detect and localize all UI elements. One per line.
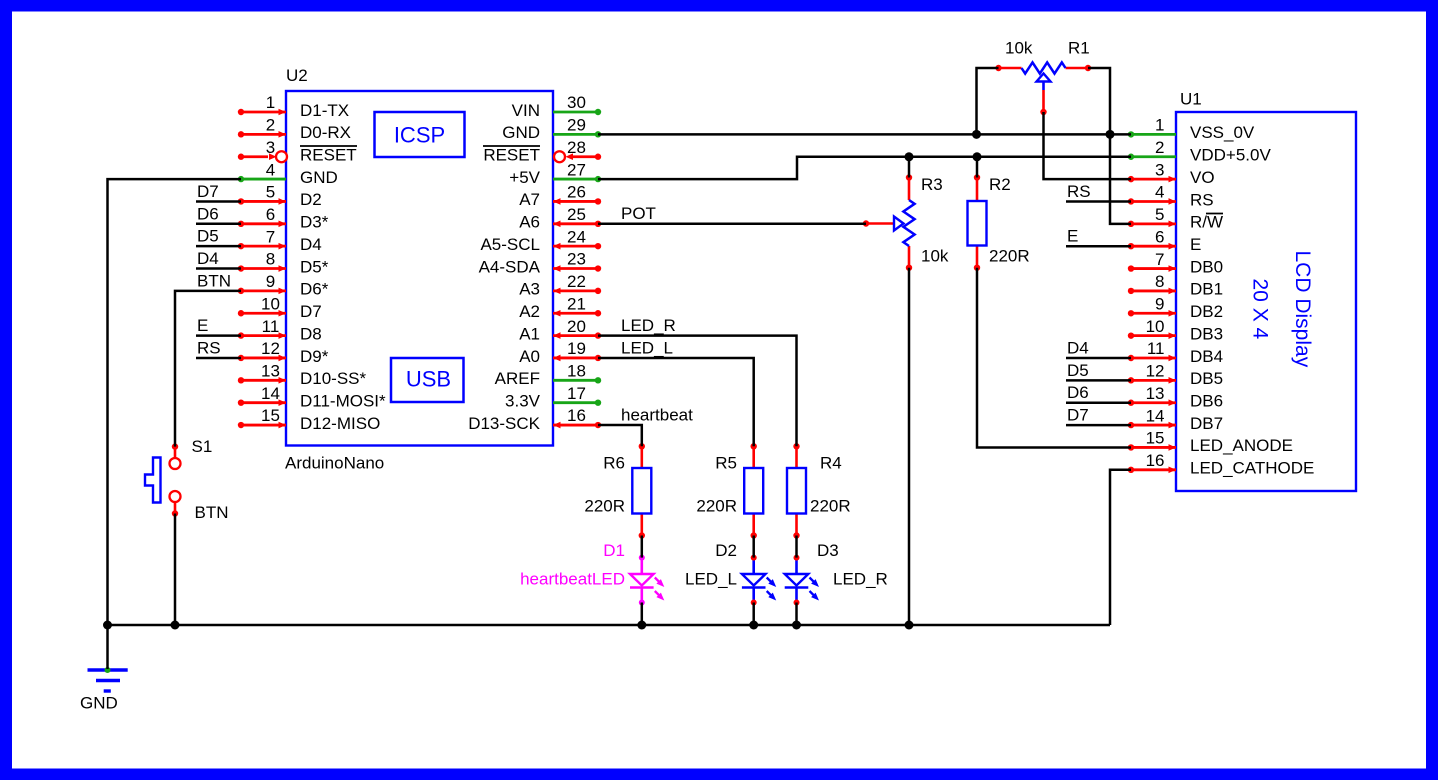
svg-text:DB3: DB3 bbox=[1190, 324, 1223, 343]
node D7 at U2 pin 5 bbox=[196, 200, 241, 203]
svg-text:A5-SCL: A5-SCL bbox=[480, 235, 540, 254]
svg-text:3: 3 bbox=[266, 138, 275, 157]
wire GND bus U2 pin29 to U1 pin1 bbox=[598, 133, 1131, 136]
svg-text:D5: D5 bbox=[1067, 361, 1089, 380]
svg-text:R5: R5 bbox=[715, 454, 737, 473]
wire +5V to R3 top bbox=[908, 157, 911, 178]
wire R3 bottom to rail bbox=[908, 268, 911, 625]
svg-text:15: 15 bbox=[1146, 429, 1165, 448]
wire R2 bottom to U1 pin15 LED_ANODE bbox=[977, 268, 1131, 448]
U2 pin 23 A4-SDA bbox=[553, 267, 598, 270]
svg-text:heartbeat: heartbeat bbox=[621, 406, 693, 425]
svg-text:D3: D3 bbox=[817, 541, 839, 560]
svg-text:LED_L: LED_L bbox=[621, 338, 673, 357]
svg-text:S1: S1 bbox=[192, 437, 213, 456]
svg-text:22: 22 bbox=[567, 272, 586, 291]
resistor R6 220R bbox=[640, 446, 643, 468]
svg-text:VDD+5.0V: VDD+5.0V bbox=[1190, 146, 1271, 165]
U2 pin 3 RESET bbox=[241, 155, 268, 158]
U2 pin 7 D4 bbox=[241, 245, 286, 248]
svg-text:BTN: BTN bbox=[197, 271, 231, 290]
node D4 at U2 pin 8 bbox=[196, 267, 241, 270]
svg-text:10: 10 bbox=[1146, 317, 1165, 336]
junction R3 / +5V bus bbox=[905, 152, 914, 161]
svg-text:28: 28 bbox=[567, 138, 586, 157]
svg-text:D4: D4 bbox=[197, 249, 219, 268]
svg-text:DB7: DB7 bbox=[1190, 414, 1223, 433]
U2 pin 19 A0 bbox=[553, 357, 598, 360]
U2 pin 20 A1 bbox=[553, 334, 598, 337]
wire +5V U2 pin27 to U1 pin2 bbox=[598, 157, 1131, 179]
svg-text:GND: GND bbox=[80, 694, 118, 713]
svg-text:7: 7 bbox=[1155, 250, 1164, 269]
U2 pin 28 RESET bbox=[554, 151, 565, 162]
U2 pin 18 AREF bbox=[553, 379, 598, 382]
svg-text:heartbeatLED: heartbeatLED bbox=[520, 570, 625, 589]
svg-text:D5*: D5* bbox=[300, 257, 329, 276]
svg-text:D5: D5 bbox=[197, 227, 219, 246]
svg-text:D13-SCK: D13-SCK bbox=[468, 414, 540, 433]
svg-text:16: 16 bbox=[567, 406, 586, 425]
node D6 at U1 pin 13 bbox=[1066, 401, 1131, 404]
U1 pin 3 VO bbox=[1131, 178, 1176, 181]
svg-text:10k: 10k bbox=[921, 247, 949, 266]
svg-text:VO: VO bbox=[1190, 168, 1215, 187]
ground symbol GND bbox=[88, 668, 128, 671]
svg-text:21: 21 bbox=[567, 294, 586, 313]
svg-text:18: 18 bbox=[567, 362, 586, 381]
wire GND bus to U1 pin5 R/W bbox=[1110, 134, 1131, 223]
svg-text:USB: USB bbox=[406, 366, 451, 391]
U1 pin 14 DB7 bbox=[1131, 424, 1176, 427]
wire LED_R U2 pin20 to R4 bbox=[598, 336, 797, 447]
svg-text:ICSP: ICSP bbox=[394, 122, 445, 147]
svg-text:10: 10 bbox=[261, 294, 280, 313]
svg-text:U2: U2 bbox=[286, 66, 308, 85]
U2 pin 10 D7 bbox=[241, 312, 286, 315]
svg-text:D12-MISO: D12-MISO bbox=[300, 414, 380, 433]
U1 pin 10 DB3 bbox=[1131, 334, 1176, 337]
svg-text:5: 5 bbox=[266, 183, 275, 202]
potentiometer R3 10k bbox=[908, 178, 911, 201]
svg-text:4: 4 bbox=[266, 160, 275, 179]
junction rail D3 bbox=[792, 621, 801, 630]
U2 pin 2 D0-RX bbox=[241, 133, 286, 136]
junction rail S1 bbox=[171, 621, 180, 630]
U2 pin 21 A2 bbox=[553, 312, 598, 315]
svg-text:RS: RS bbox=[1190, 190, 1214, 209]
svg-text:D7: D7 bbox=[300, 302, 322, 321]
IC U2 ArduinoNano body bbox=[286, 91, 553, 446]
svg-text:9: 9 bbox=[1155, 294, 1164, 313]
svg-text:20 X 4: 20 X 4 bbox=[1249, 279, 1272, 340]
LED D2 LED_L bbox=[752, 558, 755, 574]
svg-text:DB6: DB6 bbox=[1190, 392, 1223, 411]
svg-text:19: 19 bbox=[567, 339, 586, 358]
wire R1 wiper to U1 pin3 VO bbox=[1044, 112, 1132, 179]
svg-text:U1: U1 bbox=[1180, 90, 1202, 109]
push button S1 BTN bbox=[172, 443, 178, 449]
node D4 at U1 pin 11 bbox=[1066, 357, 1131, 360]
junction R2 / +5V bus bbox=[973, 152, 982, 161]
svg-text:LED_ANODE: LED_ANODE bbox=[1190, 436, 1293, 455]
svg-text:LED_R: LED_R bbox=[621, 316, 676, 335]
resistor R2 220R bbox=[976, 178, 979, 202]
svg-text:D6: D6 bbox=[197, 204, 219, 223]
U2 pin 24 A5-SCL bbox=[553, 245, 598, 248]
svg-text:E: E bbox=[1067, 227, 1078, 246]
wire LED_CATHODE to rail bbox=[1110, 470, 1131, 625]
wire +5V to R2 top bbox=[976, 157, 979, 178]
U1 pin 16 LED_CATHODE bbox=[1131, 468, 1176, 471]
svg-text:D2: D2 bbox=[300, 190, 322, 209]
junction rail R3 bbox=[905, 621, 914, 630]
svg-text:R2: R2 bbox=[989, 175, 1011, 194]
U2 pin 12 D9* bbox=[241, 357, 286, 360]
svg-text:R6: R6 bbox=[603, 454, 625, 473]
svg-text:LED_L: LED_L bbox=[685, 570, 737, 589]
svg-text:RESET: RESET bbox=[483, 146, 540, 165]
U2 pin 9 D6* bbox=[241, 289, 286, 292]
U2 pin 4 GND bbox=[241, 178, 286, 181]
svg-text:E: E bbox=[197, 316, 208, 335]
svg-text:DB5: DB5 bbox=[1190, 369, 1223, 388]
node RS at U1 pin 4 bbox=[1066, 200, 1131, 203]
svg-text:4: 4 bbox=[1155, 183, 1164, 202]
node D7 at U1 pin 14 bbox=[1066, 424, 1131, 427]
svg-text:D8: D8 bbox=[300, 324, 322, 343]
svg-text:220R: 220R bbox=[696, 497, 737, 516]
svg-text:DB4: DB4 bbox=[1190, 347, 1223, 366]
svg-text:1: 1 bbox=[266, 93, 275, 112]
svg-text:RS: RS bbox=[197, 338, 221, 357]
node E at U1 pin 6 bbox=[1066, 245, 1131, 248]
svg-text:14: 14 bbox=[1146, 406, 1165, 425]
node D6 at U2 pin 6 bbox=[196, 223, 241, 226]
svg-text:2: 2 bbox=[1155, 138, 1164, 157]
resistor R5 220R bbox=[752, 446, 755, 468]
svg-text:D0-RX: D0-RX bbox=[300, 123, 351, 142]
svg-text:29: 29 bbox=[567, 116, 586, 135]
svg-text:7: 7 bbox=[266, 227, 275, 246]
wire S1 to rail bbox=[174, 514, 177, 626]
svg-text:23: 23 bbox=[567, 250, 586, 269]
U1 pin 2 VDD+5.0V bbox=[1131, 155, 1176, 158]
U2 pin 27 +5V bbox=[553, 178, 598, 181]
U1 pin 5 R/W bbox=[1131, 222, 1176, 225]
svg-text:220R: 220R bbox=[810, 497, 851, 516]
svg-text:A2: A2 bbox=[519, 302, 540, 321]
svg-text:D2: D2 bbox=[715, 541, 737, 560]
svg-text:GND: GND bbox=[502, 123, 540, 142]
svg-text:D11-MOSI*: D11-MOSI* bbox=[300, 391, 386, 410]
wire R5 to D2 bbox=[752, 536, 755, 558]
svg-text:8: 8 bbox=[266, 250, 275, 269]
svg-text:A1: A1 bbox=[519, 324, 540, 343]
USB box bbox=[391, 358, 464, 402]
svg-text:R4: R4 bbox=[820, 454, 842, 473]
svg-text:D9*: D9* bbox=[300, 347, 329, 366]
junction R1 right / GND bus bbox=[1106, 130, 1115, 139]
ICSP box bbox=[375, 112, 465, 157]
svg-text:A3: A3 bbox=[519, 280, 540, 299]
svg-text:BTN: BTN bbox=[195, 503, 229, 522]
wire D1 to rail bbox=[641, 603, 644, 626]
svg-text:13: 13 bbox=[261, 362, 280, 381]
U1 pin 8 DB1 bbox=[1131, 290, 1176, 293]
wire R1 right down bbox=[1088, 68, 1110, 134]
svg-text:R/W: R/W bbox=[1190, 213, 1223, 232]
U2 pin 26 A7 bbox=[553, 200, 598, 203]
svg-text:26: 26 bbox=[567, 183, 586, 202]
svg-text:LED_R: LED_R bbox=[833, 570, 888, 589]
svg-text:25: 25 bbox=[567, 205, 586, 224]
svg-text:D1-TX: D1-TX bbox=[300, 101, 349, 120]
svg-text:D7: D7 bbox=[197, 182, 219, 201]
svg-text:DB1: DB1 bbox=[1190, 280, 1223, 299]
wire POT U2 pin25 to R3 wiper bbox=[598, 223, 866, 226]
LED D1 heartbeatLED bbox=[640, 558, 643, 574]
junction R1 left / GND bus bbox=[972, 130, 981, 139]
IC U1 LCD Display body bbox=[1176, 112, 1356, 491]
svg-text:DB2: DB2 bbox=[1190, 302, 1223, 321]
U1 pin 7 DB0 bbox=[1131, 267, 1176, 270]
svg-text:R1: R1 bbox=[1068, 39, 1090, 58]
node RS at U2 pin 12 bbox=[196, 357, 241, 360]
node E at U2 pin 11 bbox=[196, 334, 241, 337]
svg-text:17: 17 bbox=[567, 384, 586, 403]
svg-text:D3*: D3* bbox=[300, 213, 329, 232]
U1 pin 4 RS bbox=[1131, 200, 1176, 203]
svg-text:1: 1 bbox=[1155, 116, 1164, 135]
svg-text:A4-SDA: A4-SDA bbox=[479, 257, 541, 276]
svg-text:D4: D4 bbox=[1067, 339, 1089, 358]
svg-text:E: E bbox=[1190, 235, 1201, 254]
svg-text:5: 5 bbox=[1155, 205, 1164, 224]
svg-text:+5V: +5V bbox=[509, 168, 540, 187]
U1 pin 13 DB6 bbox=[1131, 401, 1176, 404]
wire GND from U2 pin4 to ground symbol bbox=[108, 179, 242, 669]
svg-text:D6: D6 bbox=[1067, 383, 1089, 402]
U1 pin 9 DB2 bbox=[1131, 312, 1176, 315]
U2 pin 8 D5* bbox=[241, 267, 286, 270]
svg-text:15: 15 bbox=[261, 406, 280, 425]
svg-text:A7: A7 bbox=[519, 190, 540, 209]
U2 pin 13 D10-SS* bbox=[241, 379, 286, 382]
svg-text:6: 6 bbox=[1155, 227, 1164, 246]
wire BTN from U2 pin9 to S1 bbox=[175, 291, 241, 447]
svg-text:24: 24 bbox=[567, 227, 586, 246]
U2 pin 16 D13-SCK bbox=[553, 424, 598, 427]
wire R6 to D1 bbox=[641, 536, 644, 558]
U2 pin 14 D11-MOSI* bbox=[241, 401, 286, 404]
U2 pin 6 D3* bbox=[241, 222, 286, 225]
U1 pin 11 DB4 bbox=[1131, 357, 1176, 360]
svg-text:30: 30 bbox=[567, 93, 586, 112]
wire bottom ground rail bbox=[108, 624, 1111, 627]
wire heartbeat U2 pin16 to R6 bbox=[598, 425, 642, 446]
wire D3 to rail bbox=[795, 603, 798, 626]
svg-text:14: 14 bbox=[261, 384, 280, 403]
svg-text:11: 11 bbox=[1147, 339, 1165, 358]
wire LED_L U2 pin19 to R5 bbox=[598, 358, 754, 446]
svg-text:LED_CATHODE: LED_CATHODE bbox=[1190, 459, 1314, 478]
svg-text:3: 3 bbox=[1155, 160, 1164, 179]
node D5 at U1 pin 12 bbox=[1066, 379, 1131, 382]
svg-text:RESET: RESET bbox=[300, 146, 357, 165]
svg-text:13: 13 bbox=[1146, 384, 1165, 403]
svg-text:11: 11 bbox=[262, 317, 280, 336]
svg-text:20: 20 bbox=[567, 317, 586, 336]
U2 pin 25 A6 bbox=[553, 222, 598, 225]
junction rail D2 bbox=[749, 621, 758, 630]
U2 pin 22 A3 bbox=[553, 289, 598, 292]
svg-text:D1: D1 bbox=[603, 541, 625, 560]
svg-text:D7: D7 bbox=[1067, 406, 1089, 425]
U1 pin 12 DB5 bbox=[1131, 379, 1176, 382]
svg-text:D6*: D6* bbox=[300, 280, 329, 299]
svg-text:12: 12 bbox=[261, 339, 280, 358]
U2 pin 11 D8 bbox=[241, 334, 286, 337]
svg-text:GND: GND bbox=[300, 168, 338, 187]
svg-text:D10-SS*: D10-SS* bbox=[300, 369, 367, 388]
potentiometer R1 10k bbox=[999, 67, 1022, 70]
svg-text:2: 2 bbox=[266, 116, 275, 135]
svg-text:DB0: DB0 bbox=[1190, 257, 1223, 276]
svg-text:10k: 10k bbox=[1005, 39, 1033, 58]
U1 pin 15 LED_ANODE bbox=[1131, 446, 1176, 449]
svg-text:220R: 220R bbox=[584, 497, 625, 516]
U2 pin 15 D12-MISO bbox=[241, 424, 286, 427]
svg-text:VIN: VIN bbox=[512, 101, 540, 120]
U1 pin 6 E bbox=[1131, 245, 1176, 248]
U2 pin 30 VIN bbox=[553, 111, 598, 114]
svg-text:VSS_0V: VSS_0V bbox=[1190, 123, 1255, 142]
U2 pin 1 D1-TX bbox=[241, 111, 286, 114]
resistor R4 220R bbox=[795, 446, 798, 468]
svg-text:3.3V: 3.3V bbox=[505, 391, 541, 410]
svg-text:LCD Display: LCD Display bbox=[1291, 251, 1314, 368]
wire D2 to rail bbox=[752, 603, 755, 626]
U2 pin 17 3.3V bbox=[553, 401, 598, 404]
svg-text:AREF: AREF bbox=[495, 369, 540, 388]
svg-text:6: 6 bbox=[266, 205, 275, 224]
svg-text:A6: A6 bbox=[519, 213, 540, 232]
svg-text:R3: R3 bbox=[921, 175, 943, 194]
svg-text:9: 9 bbox=[266, 272, 275, 291]
wire R4 to D3 bbox=[795, 536, 798, 558]
svg-text:D4: D4 bbox=[300, 235, 322, 254]
svg-text:27: 27 bbox=[567, 160, 586, 179]
svg-text:220R: 220R bbox=[989, 247, 1030, 266]
svg-text:A0: A0 bbox=[519, 347, 540, 366]
svg-text:8: 8 bbox=[1155, 272, 1164, 291]
U1 pin 1 VSS_0V bbox=[1131, 133, 1176, 136]
U2 pin 5 D2 bbox=[241, 200, 286, 203]
junction rail GND symbol bbox=[103, 621, 112, 630]
svg-text:12: 12 bbox=[1146, 362, 1165, 381]
LED D3 LED_R bbox=[795, 558, 798, 574]
svg-text:RS: RS bbox=[1067, 182, 1091, 201]
svg-text:ArduinoNano: ArduinoNano bbox=[285, 454, 384, 473]
node D5 at U2 pin 7 bbox=[196, 245, 241, 248]
U2 pin 29 GND bbox=[553, 133, 598, 136]
svg-text:16: 16 bbox=[1146, 451, 1165, 470]
wire R1 left to GND bus bbox=[977, 68, 999, 134]
junction rail D1 bbox=[637, 621, 646, 630]
svg-text:POT: POT bbox=[621, 204, 656, 223]
